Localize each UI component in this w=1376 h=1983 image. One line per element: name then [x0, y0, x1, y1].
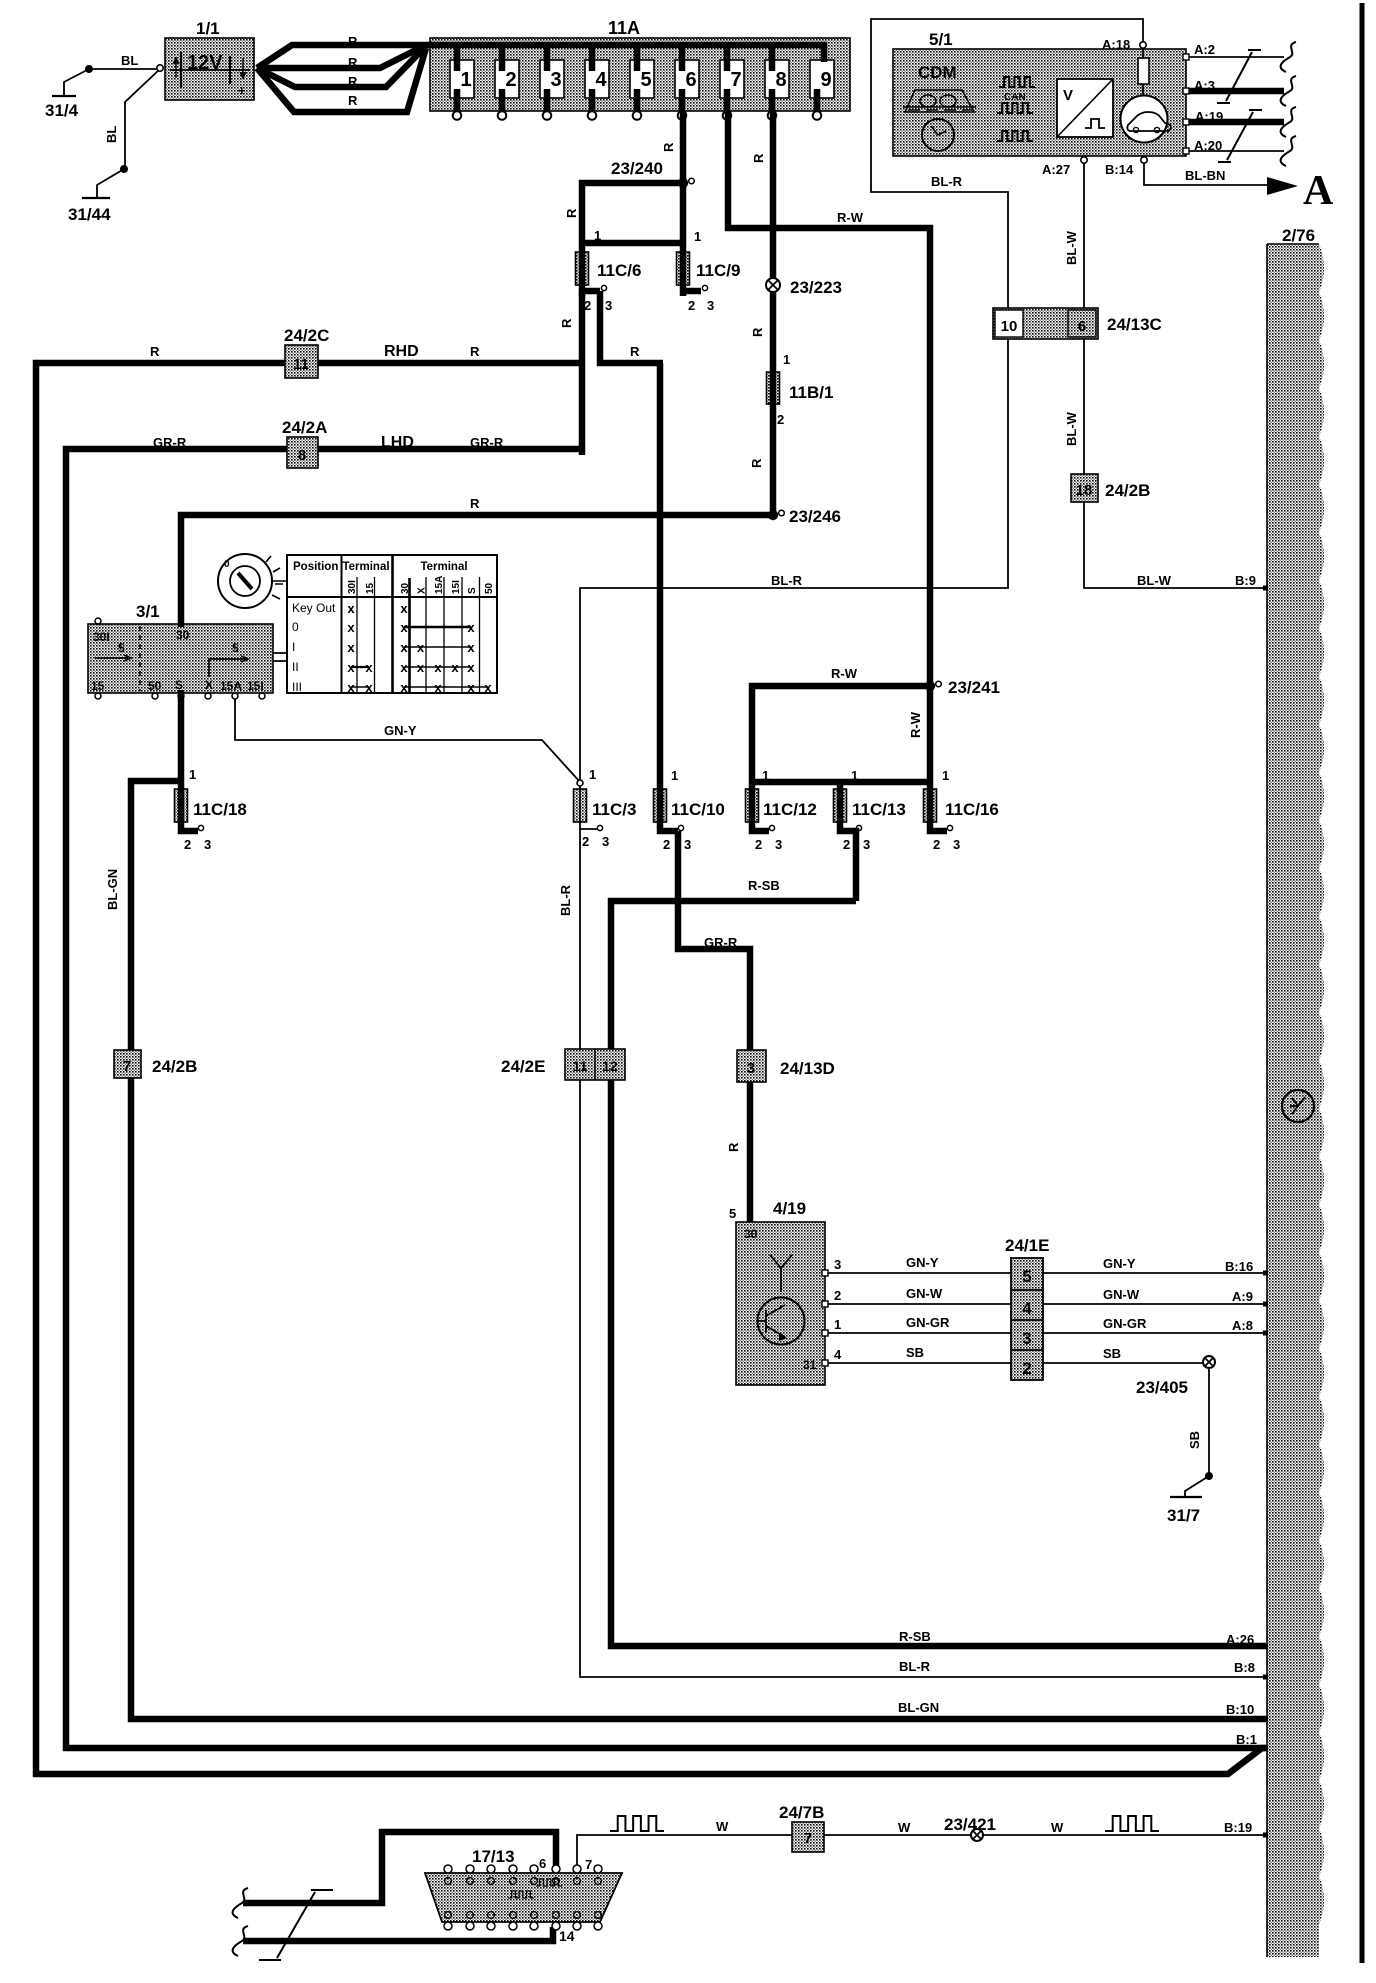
svg-text:30I: 30I [93, 630, 110, 644]
svg-text:x: x [467, 680, 475, 695]
svg-text:Position: Position [293, 561, 338, 573]
svg-text:x: x [365, 680, 373, 695]
svg-text:BL-GN: BL-GN [898, 1700, 939, 1715]
svg-text:A:9: A:9 [1232, 1289, 1253, 1304]
svg-text:7: 7 [730, 69, 741, 91]
svg-text:1: 1 [942, 768, 949, 783]
svg-text:R: R [470, 496, 480, 511]
svg-text:BL-R: BL-R [931, 174, 963, 189]
svg-text:x: x [347, 640, 355, 655]
svg-text:3: 3 [605, 298, 612, 313]
svg-text:11C/12: 11C/12 [763, 800, 817, 819]
svg-text:x: x [434, 680, 442, 695]
svg-text:x: x [467, 640, 475, 655]
svg-text:x: x [347, 601, 355, 616]
svg-text:8: 8 [298, 447, 306, 464]
svg-text:I: I [292, 640, 295, 654]
svg-text:S: S [175, 678, 183, 692]
svg-text:x: x [347, 620, 355, 635]
svg-text:S: S [467, 587, 478, 594]
svg-text:B:19: B:19 [1224, 1820, 1252, 1835]
svg-text:A:2: A:2 [1194, 42, 1215, 57]
svg-text:23/405: 23/405 [1136, 1378, 1188, 1397]
svg-text:11C/10: 11C/10 [671, 800, 725, 819]
svg-text:11B/1: 11B/1 [789, 383, 833, 402]
svg-text:R-W: R-W [908, 711, 923, 738]
svg-text:R-SB: R-SB [748, 878, 780, 893]
svg-text:x: x [484, 680, 492, 695]
svg-text:11: 11 [293, 356, 309, 373]
svg-text:GN-Y: GN-Y [906, 1255, 939, 1270]
svg-text:x: x [467, 660, 475, 675]
svg-text:1/1: 1/1 [196, 19, 220, 38]
svg-text:15: 15 [365, 582, 376, 594]
svg-text:11: 11 [573, 1058, 588, 1074]
svg-text:x: x [467, 620, 475, 635]
svg-text:12: 12 [602, 1058, 618, 1074]
svg-text:R: R [559, 318, 574, 328]
svg-text:BL-R: BL-R [899, 1659, 931, 1674]
svg-text:24/13D: 24/13D [780, 1059, 835, 1078]
svg-text:18: 18 [1076, 482, 1093, 499]
svg-text:2: 2 [688, 298, 695, 313]
svg-text:3: 3 [684, 837, 691, 852]
svg-text:2: 2 [663, 837, 670, 852]
svg-text:31/4: 31/4 [45, 101, 79, 120]
svg-text:11C/16: 11C/16 [945, 800, 999, 819]
svg-text:SB: SB [1187, 1431, 1202, 1449]
svg-text:B:9: B:9 [1235, 573, 1256, 588]
svg-text:3: 3 [602, 834, 609, 849]
svg-text:3: 3 [204, 837, 211, 852]
svg-text:2: 2 [505, 69, 516, 91]
svg-text:R: R [150, 344, 160, 359]
svg-text:II: II [292, 660, 299, 674]
svg-text:BL-BN: BL-BN [1185, 168, 1225, 183]
svg-text:24/1E: 24/1E [1005, 1236, 1049, 1255]
svg-text:BL-W: BL-W [1064, 230, 1079, 265]
svg-text:GN-GR: GN-GR [1103, 1316, 1147, 1331]
svg-text:V: V [1063, 87, 1073, 104]
svg-text:R: R [348, 93, 358, 108]
svg-text:0: 0 [224, 559, 230, 570]
svg-text:30: 30 [400, 582, 411, 594]
svg-text:B:16: B:16 [1225, 1259, 1253, 1274]
svg-text:B:1: B:1 [1236, 1732, 1257, 1747]
svg-text:15I: 15I [247, 679, 264, 693]
svg-text:3: 3 [747, 1060, 755, 1077]
svg-text:+: + [238, 83, 246, 98]
svg-text:x: x [400, 660, 408, 675]
svg-text:24/2A: 24/2A [282, 418, 327, 437]
svg-text:9: 9 [820, 69, 831, 91]
svg-text:BL-R: BL-R [771, 573, 803, 588]
svg-text:4: 4 [834, 1347, 842, 1362]
svg-text:GN-W: GN-W [906, 1286, 943, 1301]
svg-text:5: 5 [118, 641, 125, 655]
svg-text:30I: 30I [347, 580, 358, 594]
svg-text:R: R [348, 74, 358, 89]
svg-text:R: R [751, 153, 766, 163]
svg-text:x: x [451, 660, 459, 675]
svg-text:A:8: A:8 [1232, 1318, 1253, 1333]
svg-text:14: 14 [559, 1928, 575, 1944]
svg-text:11C/3: 11C/3 [592, 800, 636, 819]
svg-text:24/13C: 24/13C [1107, 315, 1162, 334]
svg-text:24/2C: 24/2C [284, 326, 329, 345]
svg-text:X: X [417, 587, 428, 594]
svg-text:A:26: A:26 [1226, 1632, 1254, 1647]
svg-text:24/2B: 24/2B [152, 1057, 197, 1076]
svg-text:GR-R: GR-R [153, 435, 187, 450]
svg-text:GN-Y: GN-Y [1103, 1256, 1136, 1271]
svg-text:2: 2 [582, 834, 589, 849]
svg-text:SB: SB [1103, 1346, 1121, 1361]
svg-text:A:27: A:27 [1042, 162, 1070, 177]
svg-text:x: x [365, 660, 373, 675]
svg-text:2/76: 2/76 [1282, 226, 1315, 245]
svg-text:A:19: A:19 [1195, 109, 1223, 124]
svg-text:R: R [661, 142, 676, 152]
svg-text:x: x [400, 601, 408, 616]
svg-text:SB: SB [906, 1345, 924, 1360]
svg-text:24/2B: 24/2B [1105, 481, 1150, 500]
svg-text:GN-Y: GN-Y [384, 723, 417, 738]
svg-text:1: 1 [834, 1317, 841, 1332]
svg-text:23/421: 23/421 [944, 1815, 996, 1834]
svg-text:R-SB: R-SB [899, 1629, 931, 1644]
svg-text:BL: BL [121, 53, 138, 68]
svg-text:x: x [400, 620, 408, 635]
svg-text:BL-W: BL-W [1064, 411, 1079, 446]
svg-text:0: 0 [292, 620, 299, 634]
svg-text:R: R [348, 34, 358, 49]
svg-text:11C/13: 11C/13 [852, 800, 906, 819]
svg-text:2: 2 [777, 412, 784, 427]
svg-text:1: 1 [762, 768, 769, 783]
svg-text:W: W [1051, 1820, 1064, 1835]
svg-text:x: x [347, 680, 355, 695]
svg-text:3/1: 3/1 [136, 602, 160, 621]
svg-text:1: 1 [594, 228, 601, 243]
svg-text:8: 8 [775, 69, 786, 91]
svg-text:6: 6 [539, 1856, 546, 1871]
svg-text:R: R [470, 344, 480, 359]
svg-text:RHD: RHD [384, 343, 419, 360]
svg-text:R-W: R-W [831, 666, 858, 681]
svg-text:11C/18: 11C/18 [193, 800, 247, 819]
svg-text:Key Out: Key Out [292, 601, 336, 615]
svg-text:3: 3 [707, 298, 714, 313]
svg-text:24/7B: 24/7B [779, 1803, 824, 1822]
svg-text:CDM: CDM [918, 63, 957, 82]
svg-text:R: R [726, 1142, 741, 1152]
svg-text:R: R [749, 458, 764, 468]
svg-text:R: R [564, 208, 579, 218]
svg-text:x: x [400, 680, 408, 695]
svg-text:x: x [347, 660, 355, 675]
svg-text:2: 2 [184, 837, 191, 852]
svg-text:R: R [630, 344, 640, 359]
svg-text:15A: 15A [434, 576, 445, 594]
svg-text:BL-GN: BL-GN [105, 869, 120, 910]
svg-text:7: 7 [804, 1830, 812, 1847]
svg-text:23/246: 23/246 [789, 507, 841, 526]
svg-text:50: 50 [148, 679, 162, 693]
svg-text:2: 2 [834, 1288, 841, 1303]
svg-text:23/241: 23/241 [948, 678, 1000, 697]
svg-text:x: x [400, 640, 408, 655]
svg-text:CAN: CAN [1004, 92, 1026, 103]
svg-text:30: 30 [744, 1227, 758, 1241]
svg-text:GN-W: GN-W [1103, 1287, 1140, 1302]
svg-text:2: 2 [755, 837, 762, 852]
svg-text:Terminal: Terminal [342, 561, 389, 573]
svg-text:3: 3 [863, 837, 870, 852]
svg-text:1: 1 [189, 767, 196, 782]
svg-text:x: x [417, 640, 425, 655]
svg-text:6: 6 [1078, 318, 1086, 335]
svg-text:A:3: A:3 [1194, 78, 1215, 93]
svg-text:11A: 11A [608, 18, 640, 38]
svg-text:15A: 15A [220, 679, 242, 693]
svg-text:3: 3 [775, 837, 782, 852]
svg-text:1: 1 [694, 229, 701, 244]
svg-text:31/7: 31/7 [1167, 1506, 1200, 1525]
svg-text:BL-R: BL-R [558, 884, 573, 916]
svg-text:W: W [898, 1820, 911, 1835]
svg-text:A:20: A:20 [1194, 138, 1222, 153]
svg-text:15: 15 [91, 679, 105, 693]
svg-text:2: 2 [584, 298, 591, 313]
svg-text:4: 4 [1022, 1299, 1032, 1318]
svg-text:4/19: 4/19 [773, 1199, 806, 1218]
svg-text:R: R [750, 327, 765, 337]
svg-text:BL: BL [104, 126, 119, 143]
svg-text:1: 1 [589, 767, 596, 782]
svg-text:X: X [205, 678, 213, 692]
svg-text:BL-W: BL-W [1137, 573, 1172, 588]
svg-text:2: 2 [1022, 1359, 1031, 1378]
svg-text:1: 1 [460, 69, 471, 91]
svg-text:5/1: 5/1 [929, 30, 953, 49]
svg-text:31: 31 [803, 1358, 817, 1372]
svg-text:1: 1 [671, 768, 678, 783]
svg-text:5: 5 [232, 641, 239, 655]
svg-text:1: 1 [783, 352, 790, 367]
svg-text:3: 3 [834, 1257, 841, 1272]
svg-text:11C/9: 11C/9 [696, 261, 740, 280]
svg-text:B:8: B:8 [1234, 1660, 1255, 1675]
svg-text:GN-GR: GN-GR [906, 1315, 950, 1330]
svg-text:24/2E: 24/2E [501, 1057, 545, 1076]
svg-text:15I: 15I [451, 580, 462, 594]
svg-text:23/240: 23/240 [611, 159, 663, 178]
svg-text:W: W [716, 1819, 729, 1834]
svg-text:3: 3 [550, 69, 561, 91]
svg-text:2: 2 [843, 837, 850, 852]
svg-text:23/223: 23/223 [790, 278, 842, 297]
svg-text:12V: 12V [187, 52, 223, 74]
svg-text:30: 30 [176, 628, 190, 642]
svg-text:2: 2 [933, 837, 940, 852]
svg-text:5: 5 [1022, 1267, 1031, 1286]
svg-text:III: III [292, 680, 302, 694]
svg-text:3: 3 [953, 837, 960, 852]
svg-text:x: x [417, 660, 425, 675]
svg-text:GR-R: GR-R [470, 435, 504, 450]
svg-text:R: R [348, 55, 358, 70]
svg-text:3: 3 [1022, 1329, 1031, 1348]
svg-text:Terminal: Terminal [420, 561, 467, 573]
svg-text:A: A [1303, 168, 1334, 214]
svg-text:11C/6: 11C/6 [597, 261, 641, 280]
svg-text:1: 1 [851, 768, 858, 783]
svg-text:R-W: R-W [837, 210, 864, 225]
svg-text:B:10: B:10 [1226, 1702, 1254, 1717]
svg-text:LHD: LHD [381, 434, 414, 451]
svg-text:GR-R: GR-R [704, 935, 738, 950]
svg-text:31/44: 31/44 [68, 205, 111, 224]
svg-text:5: 5 [640, 69, 651, 91]
svg-text:50: 50 [484, 582, 495, 594]
svg-text:17/13: 17/13 [472, 1847, 515, 1866]
svg-text:7: 7 [123, 1058, 131, 1075]
svg-text:B:14: B:14 [1105, 162, 1134, 177]
svg-text:x: x [434, 660, 442, 675]
svg-text:7: 7 [585, 1857, 592, 1872]
svg-text:4: 4 [595, 69, 607, 91]
svg-text:5: 5 [729, 1206, 736, 1221]
svg-text:10: 10 [1001, 318, 1018, 335]
svg-text:6: 6 [685, 69, 696, 91]
svg-text:A:18: A:18 [1102, 37, 1130, 52]
